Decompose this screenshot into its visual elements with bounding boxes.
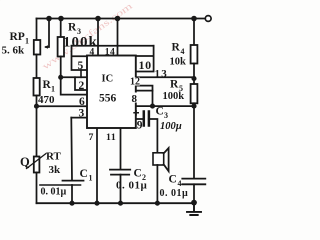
junction dots pin8 net — [150, 104, 155, 109]
wire C1 to ground rail — [71, 185, 73, 203]
thermistor RT — [34, 157, 40, 173]
svg-text:RT: RT — [46, 151, 62, 163]
wire C4 to ground — [193, 184, 195, 203]
wire pin 7 to ground rail — [96, 128, 98, 203]
svg-text:R: R — [68, 22, 77, 34]
polarity plus C3 — [133, 110, 139, 116]
wire pin5 to pin10 — [72, 45, 154, 47]
wire top supply rail — [37, 18, 206, 20]
wire pin 8 to R5 bottom — [136, 105, 194, 107]
svg-text:C: C — [134, 168, 142, 180]
pin number 12 — [129, 78, 140, 86]
wire pin 12 — [136, 86, 153, 107]
wire RP1 to R1 — [36, 55, 38, 79]
svg-text:1: 1 — [51, 85, 55, 94]
svg-text:100k: 100k — [163, 91, 185, 102]
potentiometer RP1 — [34, 40, 41, 55]
wire node down to C4 — [193, 106, 195, 179]
junction dots top rail — [46, 16, 52, 22]
terminal circle + supply — [205, 16, 211, 22]
svg-text:5. 6k: 5. 6k — [2, 45, 26, 57]
svg-text:C: C — [156, 106, 164, 118]
svg-text:3: 3 — [79, 108, 85, 120]
wire node to pin 2 — [61, 76, 87, 78]
svg-text:6: 6 — [79, 96, 85, 108]
capacitor C3 plates — [144, 112, 149, 126]
wire rail to R4 — [193, 19, 195, 46]
wire pin 4 to rail — [97, 19, 99, 56]
pin 2 tab — [75, 77, 87, 90]
svg-text:R: R — [172, 42, 181, 54]
wire bottom ground rail — [37, 202, 195, 204]
tick pin5 to pin2 — [80, 70, 82, 77]
wire pin 3 to C1 — [70, 118, 73, 181]
svg-text:10: 10 — [139, 58, 152, 72]
ground symbol — [187, 203, 201, 215]
wiper arrowhead RP1 — [44, 45, 48, 49]
resistor R5 — [191, 84, 198, 103]
pin 8 tab — [136, 90, 153, 92]
wire R5 to pin8 node — [193, 103, 195, 106]
capacitor C2 plates — [110, 169, 130, 171]
wire rail to R3 — [60, 19, 62, 38]
pin number 8 — [130, 93, 138, 103]
svg-text:470: 470 — [38, 94, 55, 106]
svg-text:4: 4 — [90, 48, 95, 58]
pin 3 tab — [71, 117, 87, 119]
watermark www.elecfans.com diagonal — [40, 0, 135, 72]
svg-text:10k: 10k — [170, 57, 187, 68]
wire R1 to RT — [36, 96, 38, 157]
wire pin 13 to R4/R5 node — [136, 76, 194, 78]
pin 10 tab and riser — [136, 46, 154, 72]
wire pin 14 to rail — [117, 19, 119, 56]
resistor R4 — [191, 45, 198, 64]
junction dot R4/R5 node — [191, 76, 196, 81]
svg-text:1: 1 — [89, 174, 93, 183]
svg-text:4: 4 — [178, 179, 182, 188]
IC 556 body — [87, 56, 136, 129]
wire pin 5 riser and tab — [72, 46, 88, 70]
resistor R1 — [34, 78, 40, 96]
svg-text:13: 13 — [155, 68, 168, 80]
svg-text:556: 556 — [99, 93, 117, 105]
wire C2 to ground rail — [120, 175, 122, 204]
svg-text:0. 01µ: 0. 01µ — [116, 180, 148, 192]
resistor R3 — [58, 37, 64, 57]
wire pin 11 to C2 — [120, 128, 122, 170]
wire speaker to ground rail — [156, 165, 158, 203]
junction dot R1/RT node — [34, 104, 39, 109]
svg-text:9: 9 — [137, 119, 143, 131]
wire node down to pin 6 — [61, 77, 87, 94]
junction dot R3/pin2 node — [58, 75, 63, 80]
svg-text:11: 11 — [106, 132, 116, 143]
wire RT to ground rail — [36, 173, 38, 204]
junction dots ground rail — [69, 201, 74, 206]
wire rail to RP1 top — [36, 19, 38, 41]
capacitor C1 plates — [63, 180, 84, 182]
svg-text:C: C — [169, 174, 177, 186]
wire RP1 wiper to rail — [46, 19, 49, 48]
wire R1/RT node to pin 6 — [37, 105, 88, 107]
svg-text:1: 1 — [25, 37, 29, 46]
svg-text:7: 7 — [89, 132, 94, 143]
svg-text:8: 8 — [132, 93, 138, 105]
wire R3 to node pin2 — [60, 57, 62, 78]
svg-text:RP: RP — [10, 31, 25, 43]
capacitor C4 plates — [182, 178, 205, 180]
svg-text:12: 12 — [130, 77, 140, 88]
svg-text:R: R — [170, 79, 179, 91]
wire R4 to node — [193, 64, 195, 85]
svg-text:3: 3 — [164, 111, 168, 120]
wire pin 9 to C3 — [136, 118, 143, 120]
speaker BL — [153, 153, 164, 165]
svg-text:4: 4 — [181, 47, 185, 56]
svg-text:IC: IC — [102, 74, 114, 85]
thermistor RT diagonal stroke — [27, 154, 47, 169]
svg-text:14: 14 — [105, 48, 116, 58]
svg-text:Q: Q — [20, 155, 30, 169]
svg-text:0. 01µ: 0. 01µ — [160, 188, 189, 199]
svg-text:100µ: 100µ — [160, 121, 182, 132]
svg-text:0. 01µ: 0. 01µ — [41, 187, 67, 198]
svg-text:2: 2 — [79, 80, 85, 92]
svg-text:3k: 3k — [49, 164, 62, 176]
svg-text:C: C — [80, 168, 88, 180]
wire C3 to speaker — [149, 119, 158, 153]
svg-text:5: 5 — [78, 60, 84, 72]
